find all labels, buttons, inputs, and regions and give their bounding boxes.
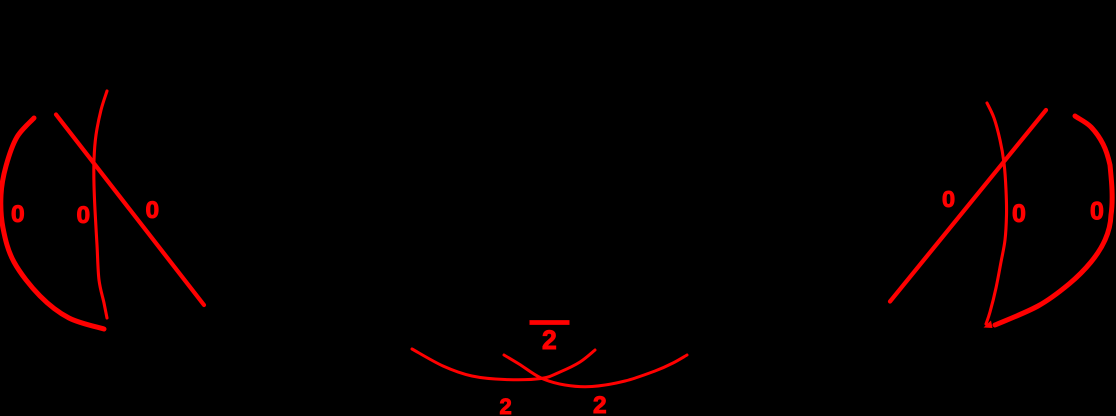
left opening parenthesis arc — [1, 118, 104, 329]
svg-text:0: 0 — [1012, 200, 1026, 228]
right diagonal strike line — [890, 110, 1046, 302]
left vertical crossing stroke — [94, 91, 107, 318]
svg-text:2: 2 — [500, 394, 512, 416]
svg-text:0: 0 — [942, 186, 955, 212]
left diagonal strike line — [56, 115, 204, 306]
svg-text:0: 0 — [146, 197, 160, 224]
center-left swoop arc U1 — [412, 349, 595, 380]
svg-text:0: 0 — [1090, 198, 1104, 226]
svg-text:2: 2 — [593, 392, 607, 416]
overline above center 2 — [530, 320, 570, 325]
right closing parenthesis arc — [995, 116, 1112, 325]
svg-text:0: 0 — [77, 202, 91, 229]
arrowhead at bottom of right crossing stroke — [984, 321, 993, 329]
svg-text:0: 0 — [11, 201, 25, 228]
right vertical crossing stroke — [986, 103, 1007, 324]
center-right swoop arc U2 — [504, 355, 687, 387]
svg-text:2: 2 — [542, 325, 557, 355]
